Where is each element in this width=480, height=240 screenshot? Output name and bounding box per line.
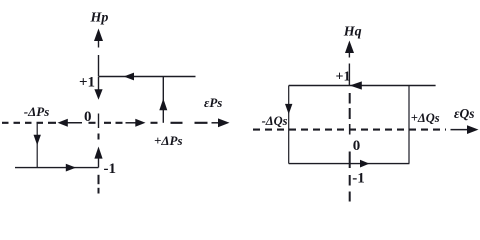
up arrow on right branch: [159, 99, 167, 111]
svg-text:+1: +1: [79, 75, 95, 91]
+1 branch (top horizontal): [99, 76, 196, 78]
dashes right of origin tick: [104, 122, 123, 124]
svg-text:+1: +1: [336, 70, 351, 85]
svg-text:+ΔPs: +ΔPs: [154, 133, 183, 148]
ePs axis: right dashed run: [171, 122, 208, 124]
right rising branch at +dPs: [162, 77, 164, 123]
svg-text:-1: -1: [352, 171, 365, 187]
Hp axis arrow (up): [98, 40, 100, 48]
svg-text:εPs: εPs: [204, 95, 222, 110]
origin tick (vertical axis crossing): [98, 114, 100, 129]
down arrow on axis from +1 toward 0: [98, 77, 100, 90]
left arrow on +1 branch: [124, 73, 134, 81]
up arrow above -1 corner: [98, 155, 100, 168]
svg-text:-ΔPs: -ΔPs: [24, 104, 49, 119]
svg-text:0: 0: [353, 138, 361, 154]
Hq axis segment above top edge: [348, 64, 350, 86]
down arrow on left edge: [285, 104, 292, 114]
Hp axis segment above +1: [98, 55, 100, 77]
Hq dashed axis lower part: [349, 152, 351, 202]
svg-text:-ΔQs: -ΔQs: [262, 114, 288, 128]
right arrow on -1 branch: [66, 164, 76, 172]
-1 branch (bottom horizontal): [15, 167, 99, 169]
loop left edge: [288, 86, 290, 164]
loop right edge: [408, 86, 410, 164]
left-pointing arrow on ePs axis: [65, 122, 82, 124]
right-pointing arrow on ePs axis: [126, 122, 138, 124]
dash before right branch: [151, 122, 158, 124]
eQs axis dashed run: [253, 129, 446, 131]
Hq axis arrow (up): [348, 52, 350, 58]
down arrow on left branch: [34, 135, 41, 145]
svg-text:Hp: Hp: [90, 10, 109, 25]
right arrow on bottom edge: [360, 160, 369, 168]
svg-text:Hq: Hq: [343, 25, 362, 40]
dashed vertical axis below origin: [98, 134, 100, 140]
Hq dashed axis below top edge: [349, 93, 351, 119]
svg-text:+ΔQs: +ΔQs: [411, 111, 440, 125]
left falling branch at -dPs: [36, 123, 38, 168]
ePs axis end arrow: [212, 122, 220, 124]
ePs axis: left dashed run: [2, 122, 56, 124]
svg-text:εQs: εQs: [454, 106, 475, 121]
loop bottom edge: [289, 163, 410, 165]
eQs axis end arrow: [451, 129, 469, 131]
Hq axis origin tick: [349, 124, 351, 135]
svg-text:-1: -1: [104, 161, 117, 177]
dash left of origin tick: [89, 122, 96, 124]
left arrow on top edge: [350, 81, 362, 89]
loop top edge: [289, 85, 436, 87]
